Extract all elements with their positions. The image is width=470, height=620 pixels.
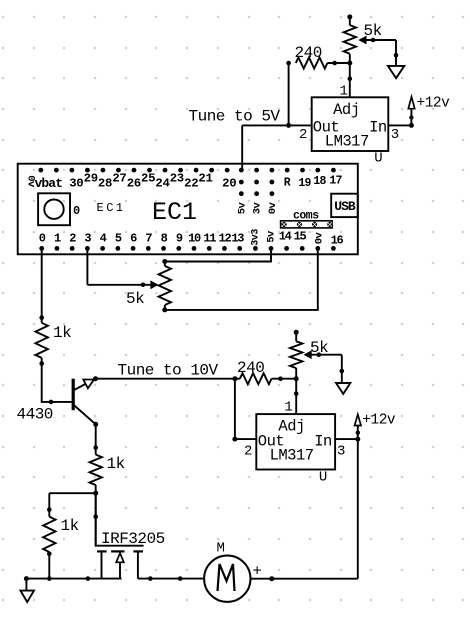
svg-text:3: 3 — [337, 444, 345, 460]
svg-text:5v: 5v — [266, 230, 278, 243]
svg-text:3v3: 3v3 — [251, 229, 262, 246]
svg-text:5v: 5v — [236, 202, 248, 215]
svg-text:1: 1 — [340, 84, 348, 100]
svg-text:2: 2 — [299, 127, 307, 143]
wire Tune-to-10V horizontal — [96, 378, 235, 380]
svg-text:2: 2 — [244, 444, 252, 460]
motor M1 — [204, 556, 250, 602]
svg-text:USB: USB — [334, 199, 356, 214]
board top-right pins R 19 18 17 — [285, 168, 336, 173]
wire from board pin 20 up to Tune-to-5V node — [241, 125, 243, 170]
ground symbol bottom-left — [25, 579, 27, 591]
wire MOSFET drain to motor — [138, 578, 204, 580]
svg-text:0v: 0v — [267, 202, 279, 215]
MOSFET Q2 IRF3205 gate — [96, 493, 144, 546]
resistor 240 (bottom) — [235, 378, 240, 380]
resistor 1k (base) — [36, 323, 48, 358]
svg-text:14: 14 — [279, 230, 292, 244]
ground rail bottom-left — [26, 578, 121, 580]
wire Tune-to-5V horizontal to LM317 U1 Out — [242, 124, 312, 126]
svg-text:22: 22 — [184, 177, 198, 191]
board labels R 19 18 17 — [284, 175, 343, 191]
svg-text:28: 28 — [98, 177, 112, 191]
EC1 dev board outline — [18, 164, 358, 255]
ground symbol top-right — [388, 66, 404, 78]
MOSFET body arrow — [119, 562, 121, 578]
svg-text:EC1: EC1 — [152, 198, 197, 227]
wire Tune-to-10V to Out of U2 — [232, 376, 237, 381]
board top-right 3x3 pad block 5v/3v/0v — [239, 168, 274, 196]
svg-text:240: 240 — [237, 359, 264, 377]
resistor 1k (pulldown) — [48, 493, 50, 516]
wire wiper to ground bottom — [341, 355, 343, 383]
pot 5k bottom wiper arrow — [306, 354, 342, 356]
svg-text:In: In — [369, 119, 387, 137]
wire board pin 0 down — [41, 248, 43, 322]
potentiometer 5k (bottom) body — [294, 330, 299, 335]
svg-text:30: 30 — [69, 177, 83, 191]
svg-text:0v: 0v — [313, 232, 325, 245]
svg-text:3v: 3v — [252, 202, 264, 215]
board bottom pin header dots 0-13 — [39, 246, 242, 251]
svg-text:1k: 1k — [107, 455, 125, 473]
wire +12v vertical — [357, 439, 359, 579]
svg-text:21: 21 — [198, 172, 212, 186]
svg-text:LM317: LM317 — [325, 132, 369, 150]
svg-text:17: 17 — [329, 175, 342, 188]
svg-text:19: 19 — [298, 177, 311, 190]
MOSFET source lead (right) — [137, 551, 139, 578]
wire pot top to board 5v pin — [165, 248, 271, 261]
svg-text:U: U — [374, 151, 382, 167]
svg-text:15: 15 — [294, 230, 307, 244]
pot 5k mid wiper arrow — [87, 284, 155, 286]
svg-text:Tune to 10V: Tune to 10V — [118, 362, 219, 380]
svg-text:M: M — [217, 541, 225, 557]
board top pin labels 0v vbat 30..20 — [25, 172, 237, 192]
wire wiper to ground — [395, 40, 397, 66]
board bottom-right pin dots — [253, 246, 336, 251]
node transistor emitter/Tune-to-10V — [93, 376, 98, 381]
wire U2 In to +12v node — [335, 438, 358, 440]
potentiometer 5k (top) body — [347, 14, 352, 19]
wire U1 In to +12v node — [388, 124, 411, 126]
pot 5k top wiper arrow — [361, 39, 397, 41]
svg-text:20: 20 — [222, 177, 236, 191]
wire motor + to 12v rail — [251, 578, 358, 580]
+12v supply arrow top — [410, 109, 412, 126]
svg-text:27: 27 — [112, 172, 126, 186]
board top pin header dots — [38, 168, 229, 173]
MOSFET drain lead (left) — [101, 551, 103, 578]
svg-text:240: 240 — [295, 44, 322, 62]
board bottom labels 3v3 5v 14 15 0v 16 — [251, 229, 344, 248]
svg-text:3: 3 — [391, 127, 399, 143]
svg-text:23: 23 — [170, 172, 184, 186]
svg-text:vbat: vbat — [35, 176, 63, 191]
node junction 240/Out — [286, 123, 291, 128]
svg-text:13: 13 — [231, 231, 244, 245]
svg-text:LM317: LM317 — [270, 447, 314, 465]
svg-text:16: 16 — [331, 234, 344, 248]
svg-text:In: In — [314, 433, 332, 451]
svg-text:18: 18 — [313, 175, 326, 188]
svg-text:1: 1 — [284, 400, 292, 416]
svg-text:R: R — [284, 177, 291, 190]
svg-text:Adj: Adj — [333, 101, 359, 119]
svg-text:EC1: EC1 — [97, 201, 126, 215]
coms connector — [281, 221, 333, 228]
resistor 1k (collector) — [90, 455, 102, 485]
svg-text:1k: 1k — [53, 324, 71, 342]
svg-text:0: 0 — [73, 204, 80, 218]
wire 1k down to gate node — [95, 485, 97, 546]
resistor 240 (top) — [286, 61, 291, 66]
wire 1k to transistor base — [42, 358, 73, 402]
svg-text:5k: 5k — [126, 290, 144, 308]
board labels 5v 3v 0v rotated — [236, 202, 279, 215]
ground symbol mid-right — [336, 383, 350, 394]
svg-text:10: 10 — [188, 231, 201, 245]
svg-text:4430: 4430 — [17, 406, 53, 424]
op-amp style box: regulator LM317 U2 — [256, 414, 335, 469]
wire board pin 3 down to wiper — [86, 248, 88, 284]
potentiometer 5k (mid) body — [162, 259, 167, 264]
wire transistor collector down — [93, 422, 98, 427]
svg-text:+12v: +12v — [362, 413, 396, 429]
svg-text:U: U — [319, 470, 327, 486]
svg-text:24: 24 — [155, 177, 170, 191]
svg-text:11: 11 — [203, 231, 216, 245]
USB connector — [331, 194, 358, 217]
svg-text:Tune to 5V: Tune to 5V — [189, 108, 281, 126]
wire from 240 R-left down to Out wire — [288, 63, 290, 125]
MOSFET channel bars — [97, 550, 107, 552]
transistor Q1 4430 — [72, 379, 75, 411]
svg-text:29: 29 — [84, 172, 98, 186]
wire gate node left to pulldown 1k — [49, 492, 95, 494]
op-amp style box: regulator LM317 U1 — [312, 97, 389, 151]
svg-text:26: 26 — [127, 177, 141, 191]
+12v supply arrow bottom — [357, 426, 359, 440]
svg-text:25: 25 — [141, 172, 155, 186]
wire pot bottom to board 0v pin — [165, 248, 318, 310]
pushbutton SW on board — [38, 193, 70, 225]
board bottom pin labels 0-13 — [39, 231, 245, 245]
svg-text:12: 12 — [219, 231, 232, 245]
svg-text:+12v: +12v — [417, 96, 451, 112]
svg-text:1k: 1k — [61, 517, 79, 535]
